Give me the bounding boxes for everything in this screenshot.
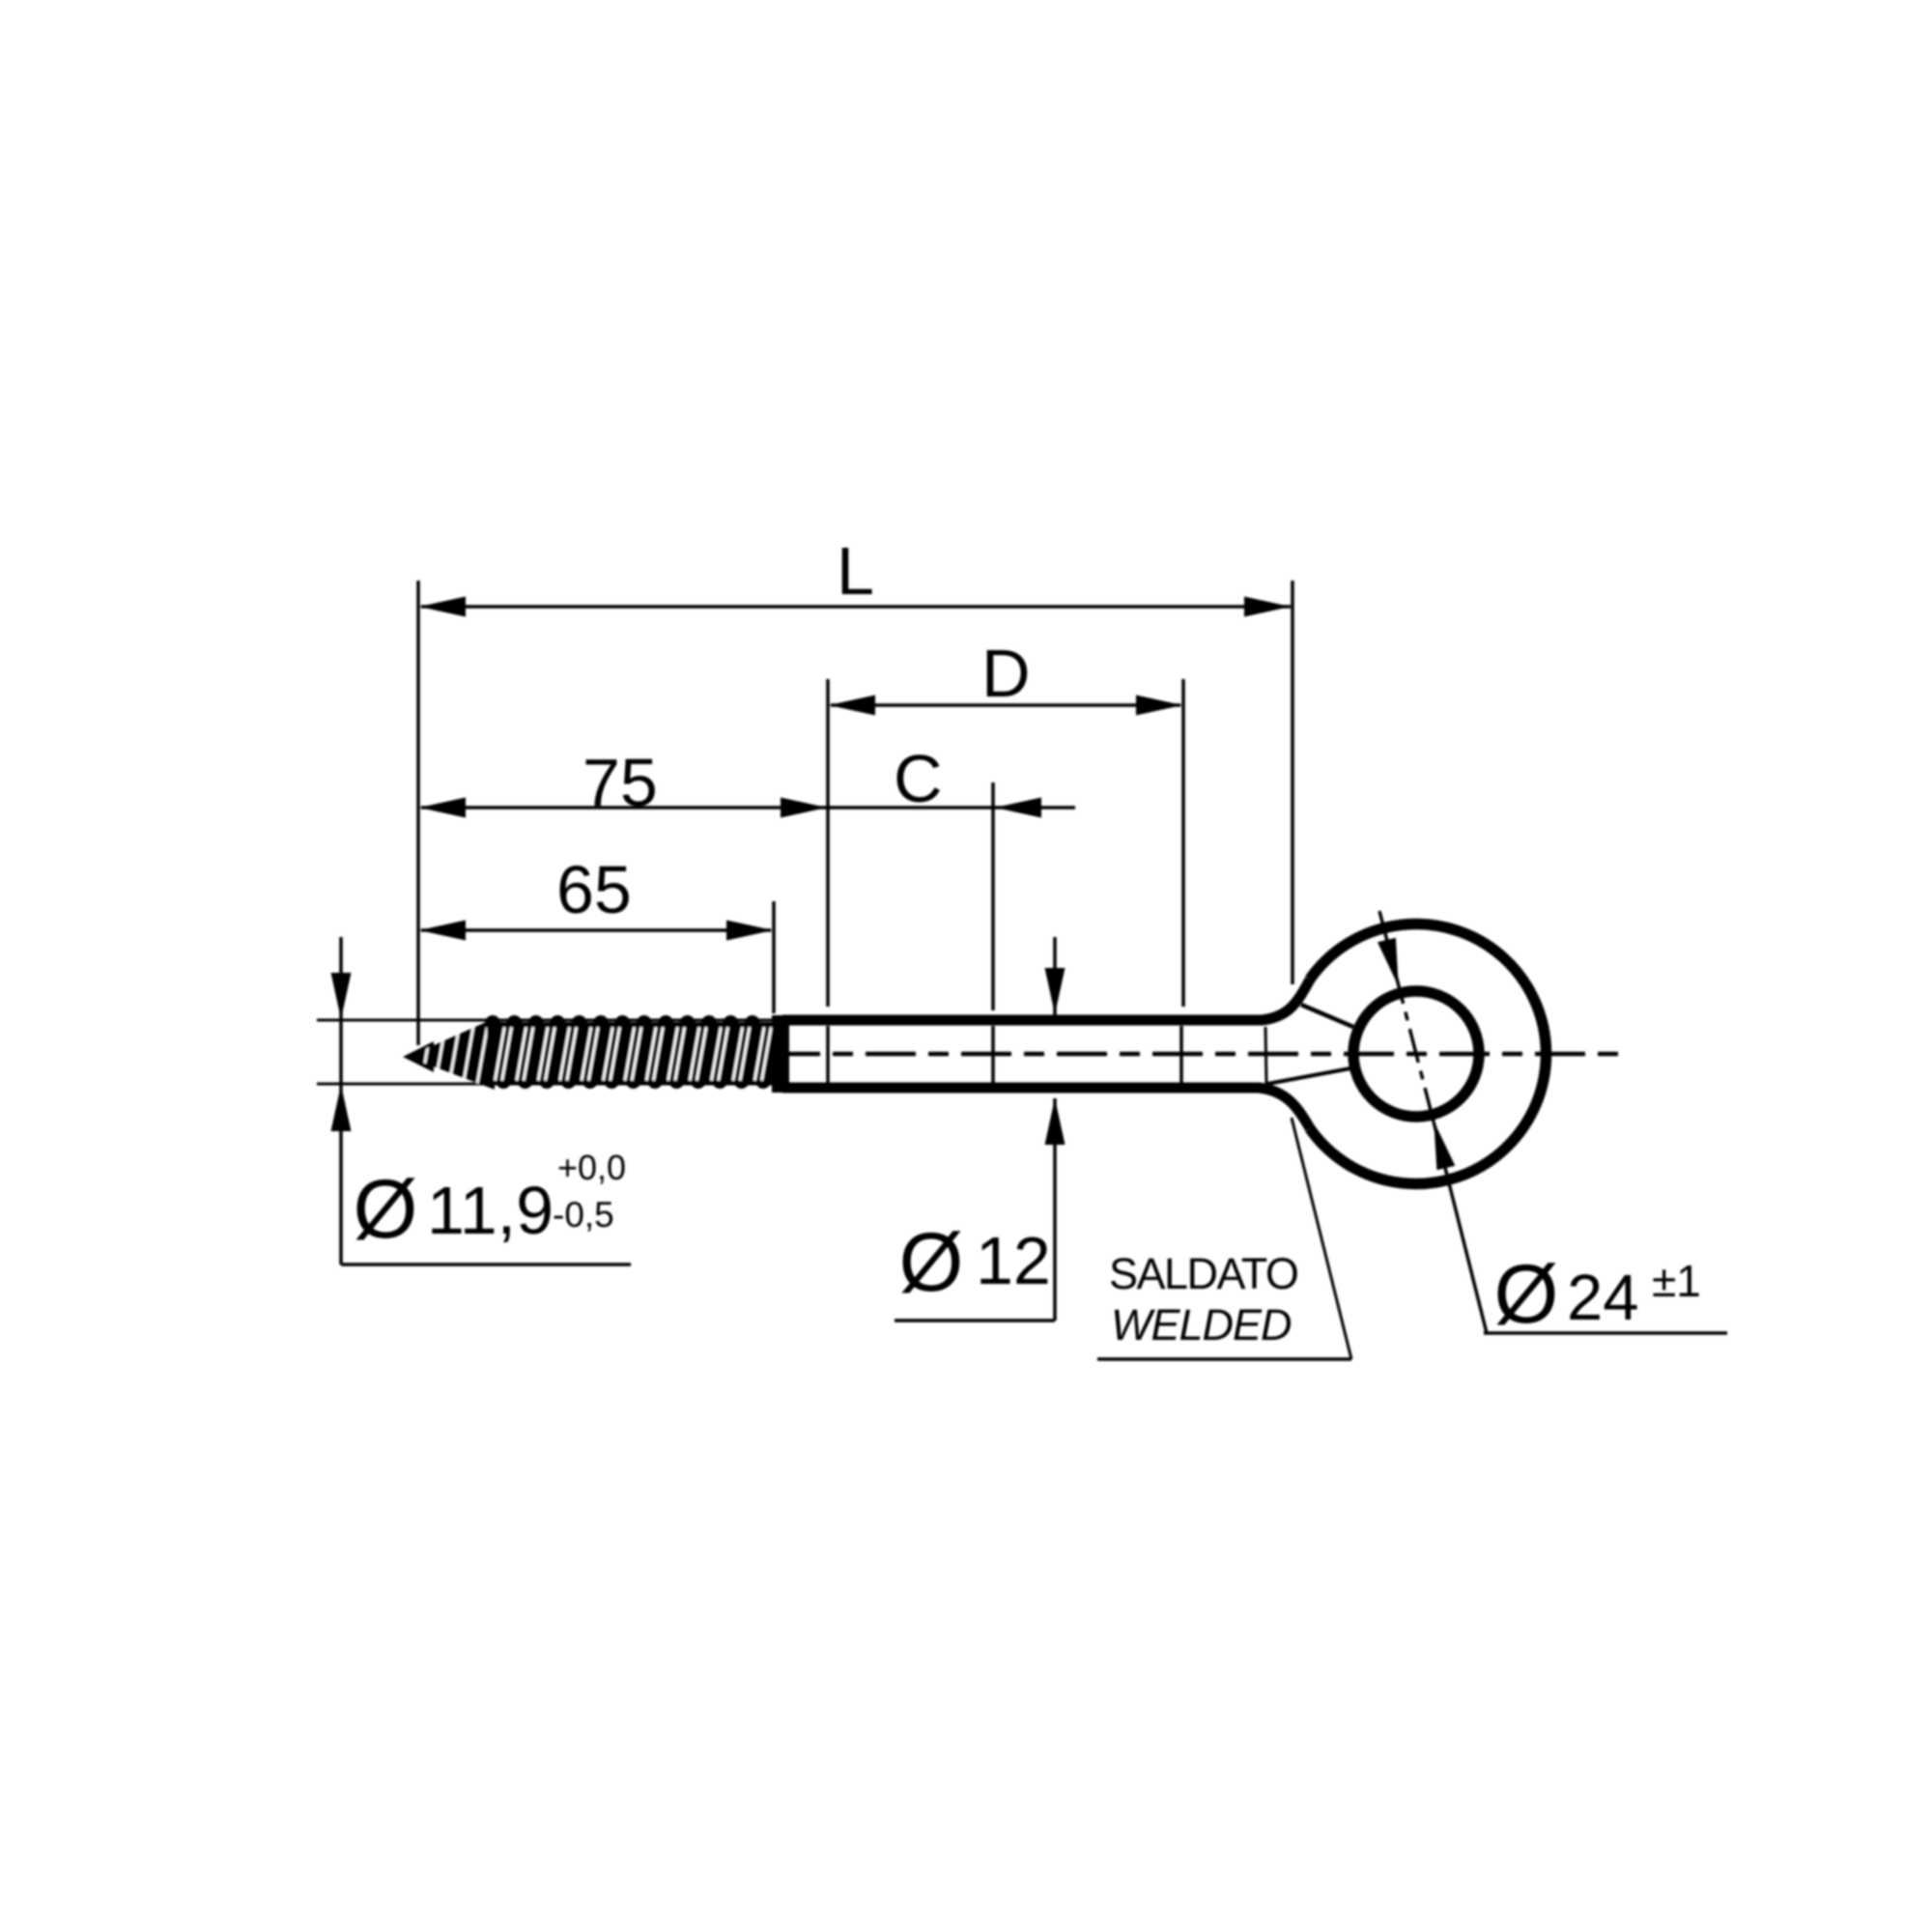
svg-text:SALDATO: SALDATO (1109, 1249, 1297, 1298)
dia 24 underline (1484, 1331, 1727, 1335)
dimension 75 / C line (421, 806, 1075, 810)
thread full section (485, 1015, 775, 1089)
dia 11.9 arrow up (331, 1085, 352, 1131)
dimension C arrow (995, 798, 1041, 818)
centerline (483, 1052, 1631, 1057)
SALDATO leader (1292, 1118, 1351, 1359)
dia 12 arrow down (1045, 968, 1065, 1014)
dia 24 arrow lower (1434, 1122, 1455, 1170)
eye hole (1353, 991, 1479, 1117)
extension line thread end (x=801) (772, 901, 776, 1013)
interior line x=1028 (991, 1026, 995, 1083)
svg-text:24: 24 (1567, 1262, 1639, 1334)
weld joint line (1265, 1027, 1266, 1084)
weld seam lower (1267, 1068, 1350, 1084)
dimension dia 12 line lower (1053, 1098, 1057, 1321)
extension line right (x=1338) (1291, 581, 1294, 984)
thread lead-in cone (408, 1014, 495, 1095)
weld seam upper (1301, 1005, 1353, 1027)
SALDATO underline (1097, 1357, 1351, 1361)
dia 12 underline (895, 1319, 1055, 1322)
svg-text:L: L (837, 533, 874, 609)
screw tip (403, 1041, 434, 1072)
svg-text:Ø: Ø (354, 1163, 418, 1256)
svg-text:+0,0: +0,0 (557, 1148, 626, 1187)
dimension 65 line (421, 928, 771, 932)
extension line x=1225 (1181, 679, 1185, 1007)
dimension dia 24 line dashed (1379, 911, 1434, 1122)
dimension dia 12 line upper (1053, 937, 1057, 1015)
svg-text:C: C (894, 741, 943, 816)
svg-text:12: 12 (976, 1223, 1051, 1298)
dia 12 arrow up (1045, 1098, 1065, 1145)
dia 11.9 underline (341, 1263, 631, 1266)
dia 24 arrow upper (1378, 938, 1399, 987)
svg-text:65: 65 (556, 852, 632, 927)
interior line x=857 (826, 1026, 830, 1083)
dimension 65 arrow left (419, 921, 466, 941)
eye outer ring (1310, 924, 1547, 1184)
svg-text:D: D (981, 636, 1031, 711)
dimension D arrow left (829, 696, 875, 716)
extension line x=857 (826, 679, 830, 1007)
svg-text:±1: ±1 (1652, 1256, 1701, 1306)
dimension 75 arrow right (781, 798, 827, 818)
interior line x=1223 (1179, 1026, 1183, 1083)
svg-text:Ø: Ø (899, 1216, 964, 1309)
svg-text:11,9: 11,9 (427, 1173, 554, 1248)
svg-text:-0,5: -0,5 (553, 1195, 614, 1235)
svg-text:WELDED: WELDED (1111, 1300, 1292, 1350)
dimension D line (831, 703, 1180, 707)
dimension 65 arrow right (726, 921, 773, 941)
dimension dia 11.9 line (339, 937, 343, 1264)
dimension L line (421, 605, 1291, 609)
extension line x=1028 (991, 782, 995, 1010)
dimension 75 arrow left (419, 798, 466, 818)
dimension L arrow right (1244, 597, 1291, 617)
svg-text:Ø: Ø (1494, 1248, 1559, 1341)
extension line left (x=433) (416, 581, 420, 1045)
svg-text:75: 75 (582, 745, 658, 820)
thread envelope bottom line (317, 1083, 773, 1086)
dia 11.9 arrow down (331, 973, 352, 1019)
dimension D arrow right (1136, 696, 1182, 716)
shank outline top + eye neck top curve (782, 980, 1310, 1020)
thread envelope top line (317, 1019, 773, 1022)
dimension L arrow left (419, 597, 466, 617)
shank outline bottom + eye neck bottom curve (782, 1088, 1310, 1128)
thread-shank junction (772, 1015, 789, 1093)
dia 24 leader (1434, 1122, 1487, 1333)
